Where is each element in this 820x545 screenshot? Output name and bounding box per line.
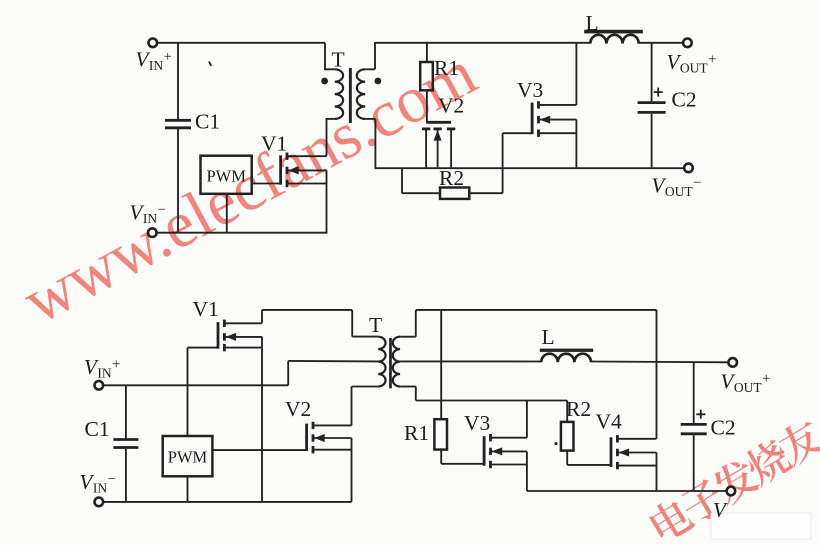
svg-text:R1: R1 xyxy=(404,421,429,445)
svg-text:V1: V1 xyxy=(193,297,219,321)
wire PWM to V2 gate xyxy=(212,449,307,451)
svg-text:VIN+: VIN+ xyxy=(84,355,120,381)
source stub xyxy=(313,449,352,451)
transformer primary winding bottom circuit xyxy=(378,337,385,387)
transformer T primary winding xyxy=(335,69,343,119)
PWM block bottom circuit xyxy=(163,436,213,476)
transformer secondary bottom lead xyxy=(365,118,375,120)
svg-text:V4: V4 xyxy=(596,410,623,434)
drain stub xyxy=(224,322,262,324)
body stub with arrow xyxy=(539,119,577,121)
terminal VIN+ top xyxy=(149,39,158,48)
transformer secondary bottom lead xyxy=(400,386,416,388)
terminal VOUT- top circuit xyxy=(684,164,693,173)
source stub xyxy=(287,183,327,185)
svg-text:VOUT−: VOUT− xyxy=(652,174,702,200)
gate bar xyxy=(426,121,451,124)
transformer secondary top lead xyxy=(400,336,416,338)
gate bar xyxy=(531,103,534,135)
svg-text:R1: R1 xyxy=(434,56,459,80)
capacitor C1 xyxy=(165,119,191,122)
svg-text:PWM: PWM xyxy=(168,448,208,467)
wire V1 source down to VIN- rail xyxy=(261,337,263,502)
wire R1 to V2 gate xyxy=(426,90,428,121)
channel segments xyxy=(422,127,430,130)
transformer core xyxy=(349,68,352,123)
body stub with arrow xyxy=(617,452,656,454)
watermark 电子发烧友 (glyph paths) xyxy=(646,415,820,545)
wire V1 source down xyxy=(326,170,328,233)
wire C1 down xyxy=(125,449,127,502)
inductor L top circuit xyxy=(590,35,638,44)
terminal VOUT+ bottom circuit xyxy=(728,358,737,367)
capacitor C2 bottom wire xyxy=(693,435,695,491)
svg-text:L: L xyxy=(542,325,555,349)
terminal VIN- bottom circuit xyxy=(95,498,104,507)
wire V1 drain up to top wire xyxy=(261,310,263,323)
source stub xyxy=(491,464,527,466)
gate bar xyxy=(217,322,220,349)
resistor R1 top wire xyxy=(426,43,428,62)
resistor R2 right wire to V3 gate xyxy=(469,192,502,194)
transformer primary bottom lead xyxy=(326,118,335,120)
svg-text:www.elecfans.com: www.elecfans.com xyxy=(12,36,488,338)
wire VIN- rail xyxy=(103,501,351,503)
terminal VOUT+ top xyxy=(683,39,692,48)
capacitor C1 bottom circuit branch xyxy=(125,385,127,438)
svg-text:R2: R2 xyxy=(566,397,591,421)
body stub with arrow xyxy=(491,450,527,452)
transformer secondary winding bottom circuit xyxy=(393,337,400,387)
wire V1 drain to transformer xyxy=(326,119,328,156)
white patch bottom right xyxy=(711,513,811,539)
wire VIN+ to center tap xyxy=(103,384,288,386)
channel segments xyxy=(223,320,226,327)
drain stub xyxy=(539,104,577,106)
svg-text:C2: C2 xyxy=(672,88,697,112)
svg-text:V2: V2 xyxy=(285,397,311,421)
wire secondary bottom rail xyxy=(375,167,685,169)
gate bar xyxy=(279,155,282,184)
plus sign xyxy=(654,88,663,97)
svg-text:T: T xyxy=(369,313,382,337)
wire primary bottom xyxy=(157,232,328,234)
wire PWM top to V1 gate xyxy=(187,348,189,436)
transformer T primary top lead xyxy=(324,43,326,70)
gate bar xyxy=(483,436,486,466)
wire V3 drain up xyxy=(526,401,528,438)
svg-text:L: L xyxy=(586,11,599,35)
body stub with arrow xyxy=(313,437,352,439)
resistor R1 xyxy=(420,62,433,90)
wire PWM bottom leg xyxy=(187,476,189,502)
transformer primary top lead bottom circuit xyxy=(351,310,353,337)
channel segments xyxy=(489,434,492,441)
capacitor C2 top circuit xyxy=(638,101,666,104)
wire V4 source down xyxy=(656,453,658,492)
resistor R2 bottom circuit top wire xyxy=(566,401,568,422)
wire PWM to V1 gate xyxy=(252,183,282,185)
capacitor C1 branch wire xyxy=(177,43,179,119)
capacitor C2 bottom circuit top wire xyxy=(693,362,695,423)
polarity dot right xyxy=(375,78,382,85)
gate bar xyxy=(305,424,308,451)
svg-text:VOUT+: VOUT+ xyxy=(721,370,771,396)
wire V4 drain up to secondary top xyxy=(656,310,658,439)
inductor L core bar bottom xyxy=(540,349,593,352)
wire V3 source down to ground rail xyxy=(526,451,528,491)
source stub xyxy=(539,132,577,134)
terminal VOUT- bottom circuit xyxy=(727,487,736,496)
svg-text:V1: V1 xyxy=(261,132,287,156)
svg-text:VIN−: VIN− xyxy=(80,470,116,496)
wire R1 to V3 gate xyxy=(440,450,442,464)
resistor R2 left wire xyxy=(401,168,403,193)
capacitor C1 bottom circuit xyxy=(113,438,138,441)
wire secondary top rail xyxy=(416,309,657,311)
svg-text:PWM: PWM xyxy=(206,166,246,185)
transformer primary bottom lead xyxy=(352,386,379,388)
capacitor C2 bottom wire xyxy=(651,114,653,168)
wire output ground rail xyxy=(527,490,727,492)
svg-text:C1: C1 xyxy=(85,417,110,441)
body stub with arrow xyxy=(224,336,262,338)
wire L to VOUT+ xyxy=(639,42,683,44)
svg-text:C1: C1 xyxy=(195,110,220,134)
drain stub xyxy=(287,155,327,157)
transformer T secondary winding xyxy=(357,69,365,119)
svg-text:VOUT+: VOUT+ xyxy=(667,50,717,76)
svg-text:C2: C2 xyxy=(711,416,736,440)
svg-text:T: T xyxy=(332,48,345,72)
wire PWM bottom xyxy=(226,194,228,233)
gate bar xyxy=(610,437,613,467)
left stub xyxy=(425,129,427,168)
svg-text:V3: V3 xyxy=(464,411,490,435)
resistor R1 bottom circuit top wire xyxy=(440,310,442,419)
wire V3 drain up xyxy=(575,42,577,105)
capacitor C2 bottom circuit xyxy=(681,423,707,426)
svg-text:V: V xyxy=(713,498,728,522)
transformer core bottom circuit xyxy=(389,338,392,388)
svg-text:VIN+: VIN+ xyxy=(136,48,172,74)
wire secondary center tap to L xyxy=(400,360,541,362)
body stub with arrow xyxy=(287,169,327,171)
wire R2 to V4 gate xyxy=(566,451,568,465)
svg-text:V3: V3 xyxy=(517,78,543,102)
wire top rail primary xyxy=(157,42,325,44)
stray mark xyxy=(209,62,211,67)
wire L to VOUT+ xyxy=(591,361,728,364)
inductor L core bar xyxy=(584,30,643,34)
plus sign bottom C2 xyxy=(696,410,705,419)
resistor R1 bottom circuit xyxy=(434,419,447,449)
channel segments xyxy=(312,422,315,429)
transformer secondary top lead xyxy=(365,68,375,70)
svg-text:V2: V2 xyxy=(438,94,464,118)
wire top rail secondary xyxy=(375,42,590,44)
terminal VIN+ bottom circuit xyxy=(95,381,104,390)
drain stub xyxy=(617,438,656,440)
wire V3 source down xyxy=(575,120,577,169)
terminal VIN- top circuit xyxy=(148,228,157,237)
wire secondary bottom xyxy=(416,400,567,402)
channel segments xyxy=(537,101,540,108)
stray dot xyxy=(555,442,558,445)
drain stub xyxy=(313,424,352,426)
inductor L bottom circuit xyxy=(541,354,591,363)
svg-text:R2: R2 xyxy=(439,166,464,190)
PWM block top circuit xyxy=(201,156,252,194)
resistor R2 bottom circuit xyxy=(561,422,574,451)
body stub with arrow xyxy=(437,129,439,168)
channel segments xyxy=(616,435,619,442)
right stub xyxy=(450,129,452,168)
wire C1 to bottom xyxy=(177,129,179,233)
polarity dot left xyxy=(321,78,328,85)
source stub xyxy=(617,465,656,467)
channel segments xyxy=(286,153,289,160)
wire V2 source down to VIN- rail xyxy=(351,438,353,502)
resistor R2 xyxy=(440,188,469,199)
capacitor C2 top wire xyxy=(651,43,653,102)
source stub xyxy=(224,347,262,349)
drain stub xyxy=(491,437,527,439)
